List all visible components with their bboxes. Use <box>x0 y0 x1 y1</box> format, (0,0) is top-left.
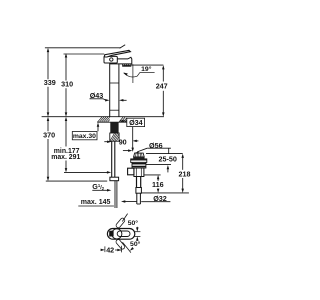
svg-text:310: 310 <box>61 80 73 89</box>
svg-text:Ø34: Ø34 <box>129 118 143 127</box>
svg-text:90: 90 <box>119 138 127 147</box>
svg-text:50°: 50° <box>130 240 141 248</box>
svg-text:339: 339 <box>44 78 56 87</box>
svg-text:max. 291: max. 291 <box>51 154 80 161</box>
svg-text:50°: 50° <box>128 219 139 227</box>
svg-text:42: 42 <box>106 245 114 254</box>
svg-text:Ø56: Ø56 <box>149 141 163 150</box>
svg-text:Ø43: Ø43 <box>90 91 104 100</box>
svg-text:25-50: 25-50 <box>159 155 177 164</box>
svg-text:116: 116 <box>152 180 164 189</box>
svg-text:max. 145: max. 145 <box>81 199 111 206</box>
svg-text:max.30: max.30 <box>73 133 96 140</box>
svg-text:247: 247 <box>156 82 168 91</box>
svg-text:Ø32: Ø32 <box>153 194 167 203</box>
svg-text:218: 218 <box>179 170 191 179</box>
svg-text:19°: 19° <box>141 65 152 73</box>
svg-text:370: 370 <box>43 130 55 139</box>
